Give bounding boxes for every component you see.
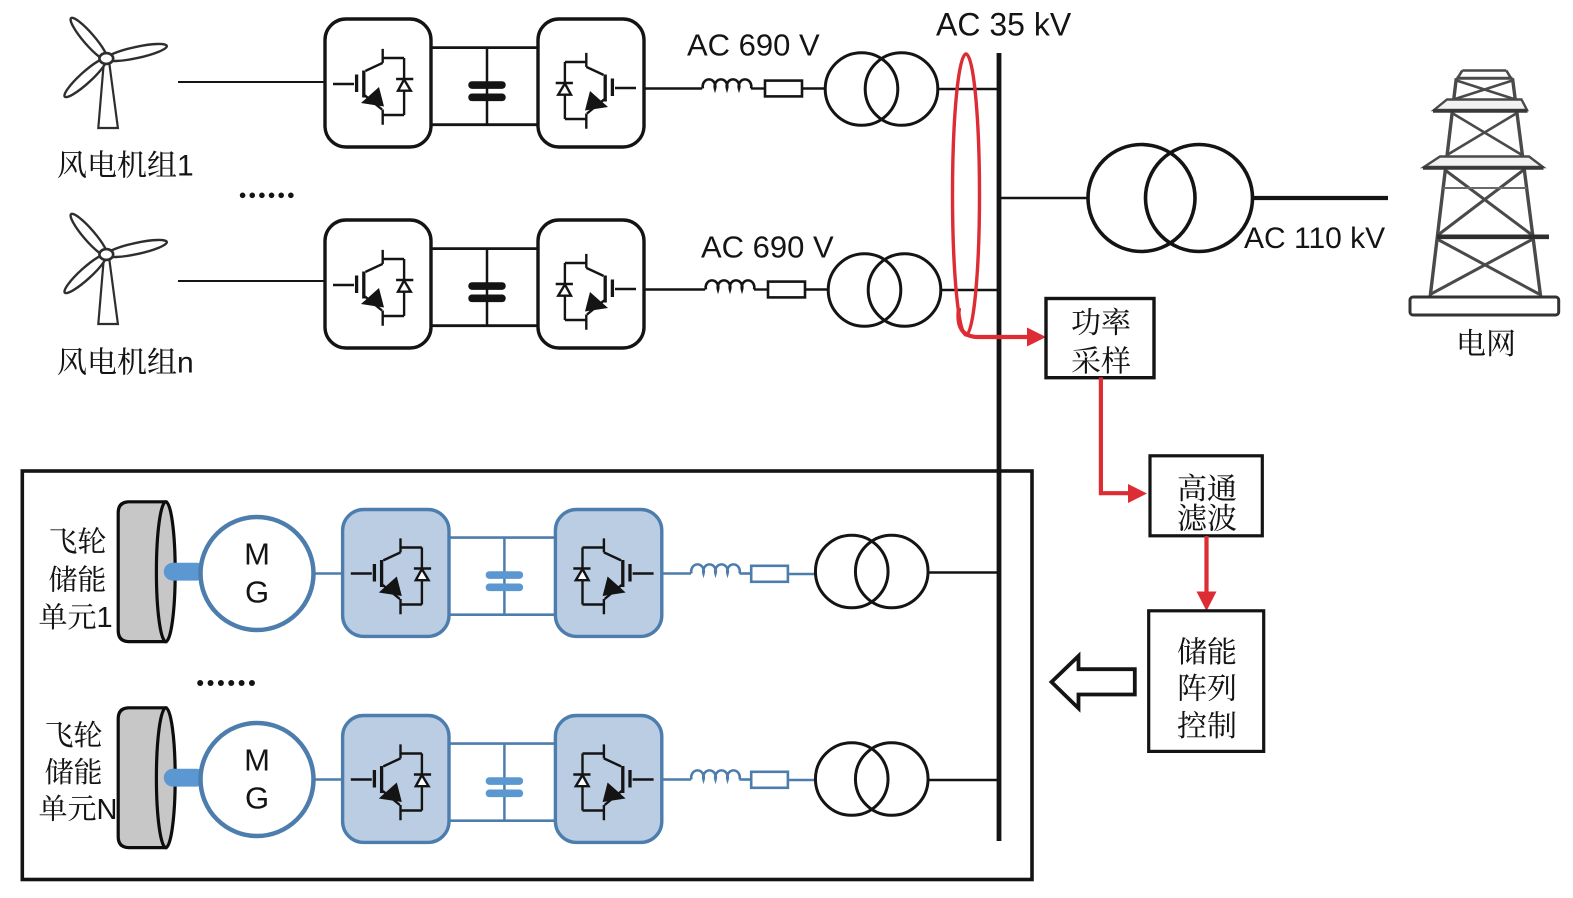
svg-text:1: 1 bbox=[177, 150, 194, 183]
svg-text:n: n bbox=[177, 347, 194, 380]
svg-text:G: G bbox=[245, 575, 269, 610]
svg-text:AC 690 V: AC 690 V bbox=[701, 230, 834, 265]
svg-text:G: G bbox=[245, 781, 269, 816]
svg-text:1: 1 bbox=[97, 602, 113, 634]
svg-text:N: N bbox=[97, 794, 118, 826]
svg-text:AC 35 kV: AC 35 kV bbox=[936, 7, 1072, 43]
svg-text:M: M bbox=[244, 743, 270, 778]
svg-text:AC 690 V: AC 690 V bbox=[687, 28, 820, 63]
svg-text:AC 110 kV: AC 110 kV bbox=[1244, 222, 1385, 255]
svg-text:M: M bbox=[244, 537, 270, 572]
